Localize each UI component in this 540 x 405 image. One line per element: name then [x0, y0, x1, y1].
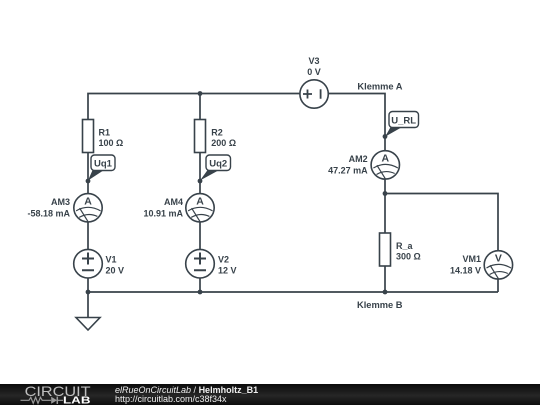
wire right branch junction to VM1 top — [385, 194, 498, 252]
svg-text:A: A — [84, 196, 92, 208]
svg-text:V1: V1 — [106, 255, 117, 265]
svg-text:R2: R2 — [211, 127, 223, 137]
wire middle branch top — [199, 94, 201, 121]
svg-text:Klemme A: Klemme A — [357, 82, 402, 92]
svg-text:300 Ω: 300 Ω — [396, 251, 421, 261]
wire VM1 bottom to bottom rail — [497, 279, 499, 292]
wire AM2 bottom to R_a top — [384, 179, 386, 233]
wire R1 bottom to AM3 top — [87, 153, 89, 195]
junction bottom left — [86, 290, 91, 295]
footer title text — [115, 386, 258, 405]
ammeter AM2 — [328, 151, 399, 179]
footer bar — [0, 384, 540, 405]
flag Uq1 — [88, 155, 115, 181]
svg-text:R1: R1 — [99, 127, 111, 137]
svg-text:VM1: VM1 — [462, 254, 481, 264]
svg-text:-58.18 mA: -58.18 mA — [27, 209, 70, 219]
svg-text:20 V: 20 V — [106, 266, 125, 276]
svg-text:V2: V2 — [218, 255, 229, 265]
voltage source V3 — [300, 56, 328, 108]
CircuitLab logo — [0, 384, 110, 405]
junction top middle — [198, 91, 203, 96]
svg-text:AM3: AM3 — [51, 197, 70, 207]
wire node U_RL to AM2 top — [384, 137, 386, 152]
svg-text:47.27 mA: 47.27 mA — [328, 166, 368, 176]
svg-text:R_a: R_a — [396, 241, 414, 251]
node dot Uq2 — [198, 179, 203, 184]
svg-text:Uq1: Uq1 — [94, 159, 113, 170]
flag U_RL — [385, 112, 418, 137]
svg-text:100 Ω: 100 Ω — [99, 138, 124, 148]
wire R2 bottom to AM4 top — [199, 153, 201, 195]
voltage source V2 — [186, 249, 237, 278]
svg-text:LAB: LAB — [63, 396, 91, 405]
ammeter AM3 — [27, 194, 102, 222]
voltage source V1 — [74, 249, 124, 278]
flag Uq2 — [200, 155, 231, 181]
wire V3 right to corner down to node U_RL — [328, 94, 385, 138]
svg-text:Klemme B: Klemme B — [357, 300, 403, 310]
wire V2 bottom to bottom rail — [199, 278, 201, 292]
svg-text:A: A — [382, 153, 390, 165]
ground — [76, 318, 100, 331]
wire top-left L from R1 top to V3 left — [88, 94, 300, 121]
svg-text:0 V: 0 V — [307, 67, 321, 77]
wire AM3 bottom to V1 top — [87, 222, 89, 250]
svg-text:Uq2: Uq2 — [209, 159, 227, 170]
resistor R1 — [83, 120, 124, 153]
svg-text:AM2: AM2 — [349, 154, 368, 164]
svg-text:U_RL: U_RL — [391, 116, 416, 127]
voltmeter VM1 — [450, 251, 513, 279]
junction bottom right — [383, 290, 388, 295]
svg-text:12 V: 12 V — [218, 266, 237, 276]
wire AM4 bottom to V2 top — [199, 222, 201, 250]
svg-text:14.18 V: 14.18 V — [450, 266, 481, 276]
node dot U_RL — [383, 134, 388, 139]
svg-text:A: A — [196, 196, 204, 208]
wire V1 bottom to bottom rail — [87, 278, 89, 292]
svg-text:V: V — [495, 253, 502, 265]
node dot Uq1 — [86, 179, 91, 184]
junction right branch — [383, 191, 388, 196]
resistor R_a — [380, 233, 421, 266]
svg-text:10.91 mA: 10.91 mA — [143, 209, 183, 219]
ammeter AM4 — [143, 194, 214, 222]
resistor R2 — [195, 120, 237, 153]
junction bottom middle — [198, 290, 203, 295]
svg-text:AM4: AM4 — [164, 197, 183, 207]
wire R_a bottom to bottom rail — [384, 267, 386, 293]
wire bottom rail — [88, 291, 498, 293]
svg-text:V3: V3 — [308, 56, 319, 66]
svg-text:200 Ω: 200 Ω — [211, 138, 236, 148]
wire bottom rail to ground — [87, 292, 89, 318]
